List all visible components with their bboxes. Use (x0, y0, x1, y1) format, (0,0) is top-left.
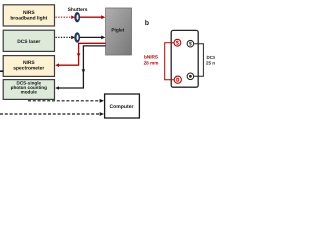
box DCS laser (3, 30, 54, 51)
svg-text:DCS: DCS (207, 55, 216, 60)
arrow into Piglet (black) (101, 36, 105, 40)
dashed wire DCS module to Computer (28, 100, 100, 102)
DCS source circle S (187, 40, 194, 47)
Piglet box (106, 8, 132, 55)
shutter 1 (74, 12, 80, 22)
arrow down mid red wire (77, 53, 81, 57)
arrow into spectrometer (55, 63, 59, 67)
wire black solid shutter 2 to Piglet (80, 36, 102, 38)
svg-text:broadband light: broadband light (10, 16, 47, 22)
wire black dotted DCS laser to shutter 2 (56, 36, 72, 38)
arrow into Computer (upper) (100, 99, 104, 103)
svg-text:25 mm: 25 mm (206, 61, 215, 66)
arrow down mid black wire (82, 69, 86, 73)
box NIRS broadband light (3, 5, 54, 26)
svg-text:bNIRS: bNIRS (144, 55, 158, 60)
arrow into shutter 1 (71, 15, 75, 19)
svg-text:DCS laser: DCS laser (17, 39, 40, 45)
svg-text:28 mm: 28 mm (144, 60, 159, 65)
arrow into Piglet (red) (101, 15, 105, 19)
svg-text:Computer: Computer (109, 104, 133, 110)
svg-text:NIRS: NIRS (23, 60, 35, 66)
svg-text:b: b (145, 19, 149, 27)
box NIRS spectrometer (3, 56, 54, 77)
label bNIRS 28 mm (144, 55, 159, 66)
shutter 2 (74, 32, 80, 42)
probe rect (171, 30, 198, 87)
arrow into shutter 2 (71, 36, 75, 40)
wire red dotted NIRS light to shutter 1 (56, 16, 72, 18)
bNIRS source circle S (174, 39, 181, 46)
wire stub into NIRS spectrometer left (0, 70, 3, 72)
dashed wire to Computer (lower) (0, 113, 100, 115)
svg-text:module: module (21, 90, 38, 95)
wire black return Piglet to DCS module (57, 46, 105, 88)
DCS bracket (194, 44, 203, 77)
svg-text:Piglet: Piglet (111, 27, 124, 32)
wire red return Piglet to NIRS spectrometer (57, 43, 105, 65)
bNIRS detector circle D (174, 76, 181, 83)
bNIRS bracket (165, 43, 174, 80)
DCS detector double circle (187, 73, 194, 80)
label DCS 25 mm (206, 55, 220, 66)
svg-text:spectrometer: spectrometer (13, 65, 44, 71)
box DCS-single photon counting module (3, 80, 54, 100)
svg-text:NIRS: NIRS (23, 10, 35, 16)
Computer box (105, 94, 140, 118)
arrow into Computer (lower) (100, 112, 104, 116)
arrow into DCS module (55, 86, 59, 90)
wire red solid shutter 1 to Piglet (80, 16, 102, 18)
